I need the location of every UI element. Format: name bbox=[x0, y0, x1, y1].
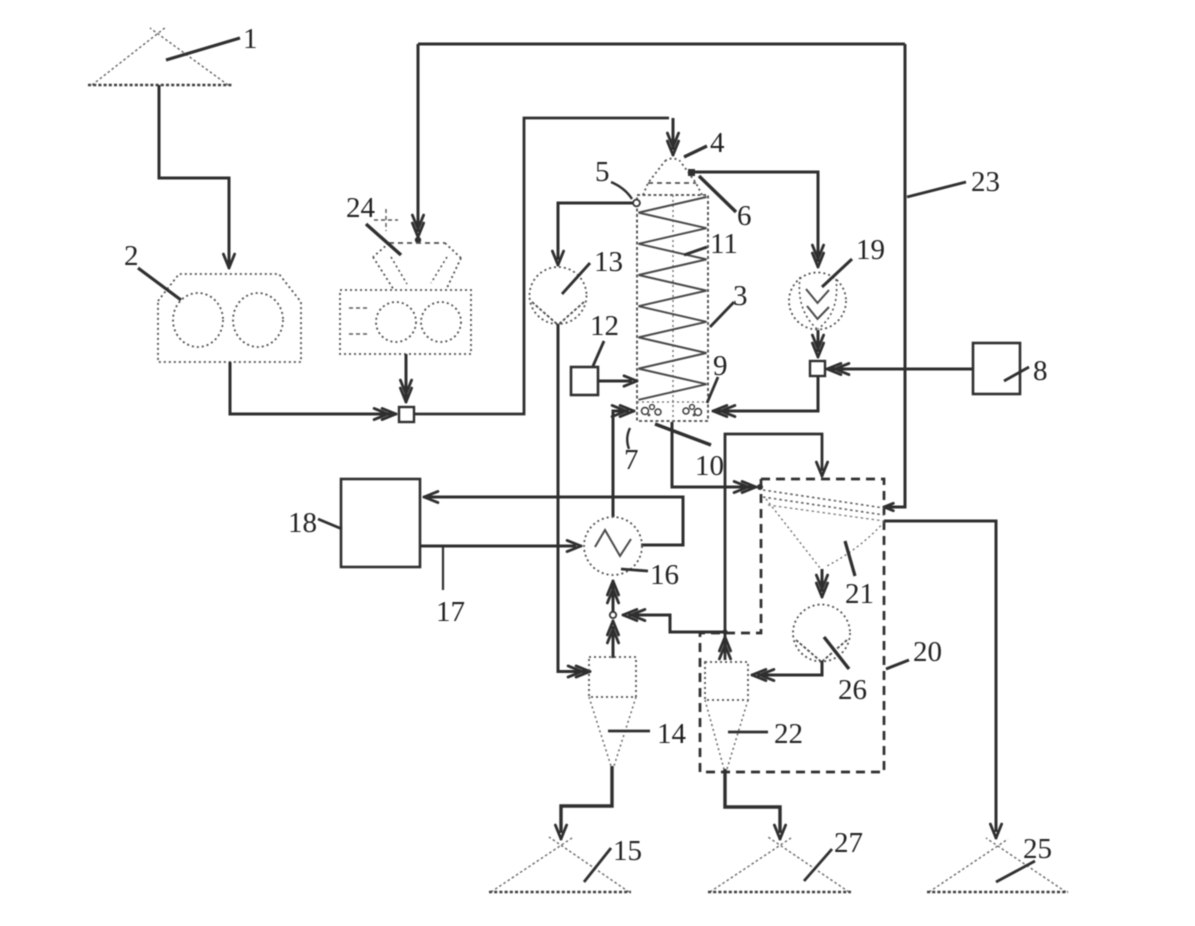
svg-text:14: 14 bbox=[657, 718, 687, 750]
svg-text:7: 7 bbox=[624, 444, 639, 476]
wire box8 to junction J2 bbox=[827, 363, 973, 374]
mill 24 body (dotted box with two rolls) bbox=[340, 290, 471, 354]
box 12 (gas feed) bbox=[571, 367, 598, 395]
svg-text:6: 6 bbox=[737, 200, 752, 232]
svg-text:27: 27 bbox=[834, 827, 863, 859]
label 3 (column) bbox=[710, 280, 748, 327]
svg-text:21: 21 bbox=[845, 578, 874, 610]
node 6 takeoff tap bbox=[688, 169, 695, 176]
label 12 bbox=[590, 310, 619, 366]
wire mill24 to junction bbox=[400, 354, 411, 402]
pump 26 (slurry pump) bbox=[793, 605, 850, 662]
box 8 (additive feed) bbox=[973, 343, 1020, 394]
column 3 body (packed spray column) bbox=[637, 195, 708, 421]
label 18 bbox=[288, 507, 342, 539]
box 18 (furnace/heater) bbox=[341, 479, 420, 567]
label 19 bbox=[822, 234, 885, 287]
node 5 nozzle dot bbox=[633, 200, 640, 207]
column bottom bubbles (gas sparge) bbox=[642, 405, 702, 417]
discharge pile 25 bbox=[927, 838, 1068, 892]
label 14 bbox=[608, 718, 687, 750]
label 15 bbox=[584, 835, 642, 882]
svg-text:15: 15 bbox=[613, 835, 642, 867]
svg-text:25: 25 bbox=[1023, 833, 1052, 865]
wire junction J1 to column top feed bbox=[414, 118, 669, 414]
label 20 bbox=[886, 636, 942, 669]
wire column dome to fan 19 bbox=[694, 172, 824, 267]
fan 19 (circle with chevrons) bbox=[789, 273, 846, 330]
svg-text:11: 11 bbox=[710, 228, 738, 260]
wire cyclone 22 overhead to junction bbox=[623, 609, 723, 632]
wire screen underflow to pump 26 bbox=[816, 569, 827, 597]
wire box 12 to column bbox=[598, 376, 637, 386]
mill 24 hopper (dotted V-hopper) bbox=[373, 243, 461, 290]
label 23 bbox=[907, 166, 1000, 198]
wire column bottom to separator 20 (stream 10) bbox=[672, 422, 763, 493]
cyclone 22 (dotted) bbox=[705, 662, 748, 769]
svg-text:10: 10 bbox=[695, 450, 724, 482]
label 24 bbox=[346, 192, 401, 255]
wire heat exchanger 16 to column bottom (stream 7) bbox=[612, 405, 634, 517]
label 27 bbox=[804, 827, 863, 881]
wire junction to HX16 bottom bbox=[607, 581, 618, 614]
label 10 bbox=[655, 424, 724, 482]
label 25 bbox=[996, 833, 1052, 882]
discharge pile 27 bbox=[708, 837, 851, 892]
svg-text:3: 3 bbox=[733, 280, 748, 312]
svg-text:26: 26 bbox=[838, 674, 867, 706]
wire HX16 to box 18 (return) bbox=[424, 491, 683, 545]
svg-text:20: 20 bbox=[913, 636, 942, 668]
wire 23 recycle downcomer bbox=[884, 44, 905, 511]
junction square J1 bbox=[399, 407, 414, 422]
label 21 bbox=[845, 541, 874, 610]
wire fan 19 to junction J2 bbox=[812, 330, 823, 357]
wire recycle down to mill 24 bbox=[412, 44, 423, 243]
label 5 (liquid draw nozzle) bbox=[595, 156, 632, 199]
label 26 bbox=[824, 637, 867, 706]
cyclone 14 (dotted) bbox=[589, 657, 636, 766]
label 1 bbox=[166, 23, 258, 60]
svg-text:12: 12 bbox=[590, 310, 619, 342]
wire stockpile1 to crusher2 bbox=[159, 85, 235, 268]
label 6 (gas takeoff) bbox=[699, 176, 752, 232]
wire top recycle header (y=44) bbox=[418, 43, 905, 46]
stockpile 1 (raw material heap) bbox=[88, 27, 232, 85]
label 16 bbox=[621, 559, 679, 591]
crusher 2 (roller mill, dotted outline) bbox=[158, 274, 301, 362]
svg-text:8: 8 bbox=[1033, 355, 1048, 387]
wire feed arrow into column dome bbox=[667, 118, 678, 155]
svg-text:4: 4 bbox=[710, 127, 725, 159]
dashed boundary 20 (separation unit) bbox=[700, 479, 884, 772]
wire screen overflow to pile 25 bbox=[884, 521, 1002, 838]
label 7 bbox=[624, 428, 639, 476]
label 2 bbox=[124, 240, 181, 300]
svg-text:13: 13 bbox=[594, 246, 623, 278]
svg-text:24: 24 bbox=[346, 192, 376, 224]
wire box 18 to HX16 (supply, stream 17) bbox=[420, 540, 581, 551]
column dome 4 (top cone) bbox=[643, 159, 702, 196]
pump 13 (circulation pump) bbox=[530, 267, 587, 325]
svg-text:22: 22 bbox=[774, 718, 803, 750]
wire cyclone 22 overhead riser to separator bbox=[719, 434, 827, 660]
svg-text:2: 2 bbox=[124, 240, 139, 272]
svg-text:17: 17 bbox=[436, 596, 465, 628]
wire J2 to column bottom (stream 9) bbox=[713, 376, 818, 417]
label 22 bbox=[728, 718, 803, 750]
discharge pile 15 bbox=[489, 837, 631, 892]
label 4 bbox=[684, 127, 725, 159]
svg-text:1: 1 bbox=[243, 23, 258, 55]
heat exchanger 16 (circle with zigzag) bbox=[584, 517, 642, 575]
label 13 bbox=[562, 246, 623, 294]
wire cyclone 14 underflow to pile 15 bbox=[555, 766, 612, 839]
wire pump 26 to cyclone 22 bbox=[752, 661, 822, 681]
svg-text:5: 5 bbox=[595, 156, 610, 188]
svg-text:19: 19 bbox=[856, 234, 885, 266]
junction square J2 bbox=[810, 361, 825, 376]
junction node below HX16 bbox=[610, 612, 616, 618]
svg-text:18: 18 bbox=[288, 507, 317, 539]
wire column nozzle 5 to pump 13 bbox=[552, 203, 633, 265]
wire crusher2 to junction bbox=[230, 362, 396, 420]
label 17 bbox=[436, 547, 465, 628]
label 9 bbox=[707, 350, 728, 403]
svg-text:23: 23 bbox=[971, 166, 1000, 198]
column 3 packing zigzag 11 bbox=[639, 197, 707, 400]
wire pump 13 to cyclone 14 bbox=[558, 324, 590, 677]
screen 21 (inclined sieve, dotted) bbox=[763, 490, 884, 568]
wire cyclone 14 overhead to junction bbox=[607, 621, 618, 658]
label 11 (packing) bbox=[684, 228, 738, 260]
wire cyclone 22 underflow to pile 27 bbox=[725, 769, 786, 839]
svg-text:16: 16 bbox=[650, 559, 679, 591]
svg-text:9: 9 bbox=[713, 350, 728, 382]
label 8 bbox=[1004, 355, 1048, 387]
